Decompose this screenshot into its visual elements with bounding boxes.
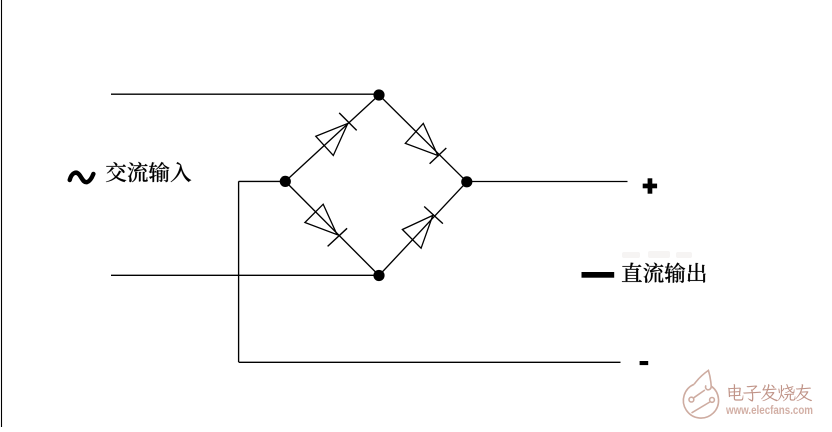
wire bridge arm left-bottom	[285, 181, 379, 275]
faint ghost smudges above DC label	[622, 251, 692, 258]
watermark logo circle (elecfans)	[683, 370, 718, 418]
plus output terminal	[643, 178, 657, 193]
node left junction	[280, 176, 291, 187]
node bottom junction	[373, 270, 384, 281]
watermark text 电子发烧友	[728, 384, 812, 401]
node top junction	[373, 89, 384, 100]
svg-text:www.elecfans.com: www.elecfans.com	[725, 403, 813, 417]
wire bridge arm top-right	[379, 95, 467, 182]
label 直流输出 (DC output)	[622, 263, 706, 283]
diode D3 (left node to bottom node)	[305, 204, 347, 246]
wire negative output: stub, vertical drop, bottom run	[239, 181, 621, 362]
DC output thick dash	[582, 272, 615, 278]
minus output terminal	[640, 361, 649, 365]
wire AC input top	[111, 93, 379, 95]
watermark url www.elecfans.com	[725, 403, 813, 417]
node right junction	[461, 176, 472, 187]
wire AC input bottom	[111, 274, 379, 276]
wire positive output	[467, 181, 628, 183]
diode D1 (left node to top node)	[316, 113, 357, 156]
left page border line	[1, 0, 3, 427]
wire bridge arm bottom-right	[379, 182, 467, 276]
diode D2 (top node to right node)	[405, 123, 446, 163]
wire bridge arm left-top	[285, 95, 379, 181]
diode D4 (bottom node to right node)	[402, 207, 443, 249]
AC source tilde symbol	[70, 173, 94, 182]
label 交流输入 (AC input)	[106, 162, 191, 182]
